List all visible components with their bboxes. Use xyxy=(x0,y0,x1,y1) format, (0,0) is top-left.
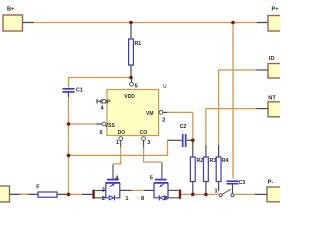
wire VSS lower line to C2 xyxy=(69,140,182,155)
svg-text:P-: P- xyxy=(268,180,274,186)
wire Q1 pin1 to Q2 pin8 xyxy=(120,190,155,202)
svg-text:C1: C1 xyxy=(76,88,83,94)
wire fuse to Q1 xyxy=(57,193,92,195)
IC U1 body xyxy=(100,84,167,136)
svg-text:B+: B+ xyxy=(7,7,15,13)
svg-text:1: 1 xyxy=(125,196,128,202)
wire bottom bus B- to fuse xyxy=(10,193,39,195)
junction bar Q1 left xyxy=(92,189,105,199)
wire C1 down to bottom bus xyxy=(68,97,70,194)
connector P- xyxy=(267,180,281,202)
resistor R4 xyxy=(215,157,229,194)
svg-text:R3: R3 xyxy=(210,158,217,164)
svg-text:VSS: VSS xyxy=(105,123,116,129)
connector NT xyxy=(268,95,282,117)
connector B+ xyxy=(3,7,23,31)
wire VDD node horizontal xyxy=(69,78,131,88)
svg-text:P+: P+ xyxy=(272,7,280,13)
resistor R1 xyxy=(129,23,142,78)
svg-text:ID: ID xyxy=(269,56,275,62)
wire bottom bus switch to P- xyxy=(234,193,267,195)
IC pin 3 CO xyxy=(142,137,151,148)
wire top bus junction down to C3 xyxy=(232,23,234,179)
svg-text:C2: C2 xyxy=(180,124,187,130)
svg-text:NT: NT xyxy=(268,95,276,101)
IC pin 1 DO xyxy=(116,137,123,147)
resistor R2 xyxy=(190,157,203,194)
IC pin 4 CDP xyxy=(97,99,106,112)
svg-text:R2: R2 xyxy=(197,158,204,164)
svg-text:6: 6 xyxy=(100,130,103,136)
IC pin 2 VM xyxy=(159,111,165,124)
svg-text:8: 8 xyxy=(141,196,144,202)
capacitor C3 xyxy=(227,180,246,194)
svg-text:DO: DO xyxy=(118,130,126,136)
connector ID xyxy=(268,56,282,78)
svg-text:1: 1 xyxy=(116,140,119,146)
svg-text:3: 3 xyxy=(102,187,105,193)
wire VM pin2 to C2/R2 node xyxy=(163,112,193,157)
svg-text:VM: VM xyxy=(146,111,154,117)
svg-text:3: 3 xyxy=(147,140,150,146)
svg-text:R4: R4 xyxy=(222,158,229,164)
svg-text:U: U xyxy=(163,84,167,90)
IC pin 5 VDD xyxy=(130,78,138,90)
connector B- xyxy=(0,186,10,202)
svg-text:2: 2 xyxy=(102,196,105,202)
svg-text:R1: R1 xyxy=(135,41,142,47)
IC pin 6 VSS xyxy=(100,122,106,136)
mosfet Q1 xyxy=(102,164,129,202)
wire NT to R3 xyxy=(206,109,268,157)
svg-text:F: F xyxy=(36,184,40,190)
svg-text:CO: CO xyxy=(140,130,148,136)
junction bar Q2 right xyxy=(168,189,181,199)
resistor R3 xyxy=(204,157,217,195)
wire ID to R4 xyxy=(219,70,268,157)
wire CO to Q2 gate xyxy=(144,148,162,163)
capacitor C1 xyxy=(63,88,83,98)
fuse F xyxy=(36,184,57,197)
svg-text:VDD: VDD xyxy=(124,94,135,100)
wire top bus B+ to P+ xyxy=(23,22,269,24)
svg-text:6: 6 xyxy=(165,196,168,202)
switch S1 xyxy=(219,189,234,196)
svg-text:5: 5 xyxy=(150,176,153,182)
svg-text:2: 2 xyxy=(162,117,165,123)
connector P+ xyxy=(268,7,282,32)
wire VSS pin6 xyxy=(69,123,103,125)
svg-text:C3: C3 xyxy=(239,180,246,186)
wire DO to Q1 gate xyxy=(113,147,121,164)
capacitor C2 xyxy=(180,124,193,147)
mosfet Q2 xyxy=(150,162,168,201)
svg-text:1: 1 xyxy=(215,188,218,194)
svg-text:5: 5 xyxy=(135,84,138,90)
wire bottom bus Q2 to switch xyxy=(181,193,219,195)
